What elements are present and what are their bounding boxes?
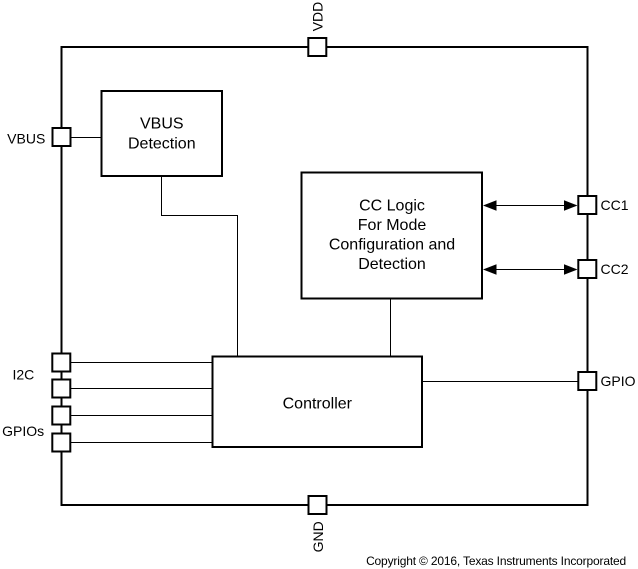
- pin GPIO: [578, 372, 596, 390]
- svg-text:Configuration and: Configuration and: [329, 237, 455, 254]
- svg-text:VBUS: VBUS: [140, 115, 184, 132]
- svg-text:Detection: Detection: [128, 135, 196, 152]
- svg-text:Copyright © 2016, Texas Instru: Copyright © 2016, Texas Instruments Inco…: [366, 554, 626, 568]
- svg-text:I2C: I2C: [13, 367, 35, 383]
- wire GPIOs pin 1 to Controller: [71, 415, 213, 417]
- svg-text:For Mode: For Mode: [358, 217, 427, 234]
- svg-text:GPIOs: GPIOs: [2, 423, 44, 439]
- block VBUS Detection: [102, 91, 223, 176]
- wire CC Logic to Controller: [390, 299, 392, 357]
- pin VDD: [308, 38, 326, 56]
- svg-text:CC1: CC1: [601, 197, 629, 213]
- pin GPIOs 1: [52, 407, 70, 425]
- svg-text:VDD: VDD: [310, 2, 326, 32]
- wire VBUS Detection to Controller: [162, 177, 238, 357]
- svg-text:Detection: Detection: [358, 256, 426, 273]
- pin VBUS: [53, 128, 71, 146]
- svg-text:CC2: CC2: [601, 261, 629, 277]
- svg-text:CC Logic: CC Logic: [359, 197, 425, 214]
- wire I2C pin 2 to Controller: [71, 388, 213, 390]
- block Controller: [213, 357, 423, 448]
- pin I2C 1: [52, 354, 70, 372]
- pin CC1: [578, 196, 596, 214]
- svg-text:GND: GND: [310, 521, 326, 552]
- wire VBUS pin to VBUS Detection: [71, 137, 101, 139]
- wire GPIOs pin 2 to Controller: [71, 442, 213, 444]
- pin I2C 2: [52, 380, 70, 398]
- chip boundary: [62, 47, 588, 505]
- pin GPIOs 2: [52, 434, 70, 452]
- bus arrow CC1: [483, 200, 578, 210]
- svg-text:VBUS: VBUS: [7, 130, 45, 146]
- block CC Logic For Mode Configuration and Detection: [302, 173, 483, 299]
- wire I2C pin 1 to Controller: [71, 362, 213, 364]
- bus arrow CC2: [483, 264, 578, 274]
- pin GND: [309, 496, 327, 514]
- pin CC2: [578, 260, 596, 278]
- wire Controller to GPIO pin: [422, 381, 578, 383]
- svg-text:GPIO: GPIO: [601, 373, 636, 389]
- svg-text:Controller: Controller: [283, 396, 353, 413]
